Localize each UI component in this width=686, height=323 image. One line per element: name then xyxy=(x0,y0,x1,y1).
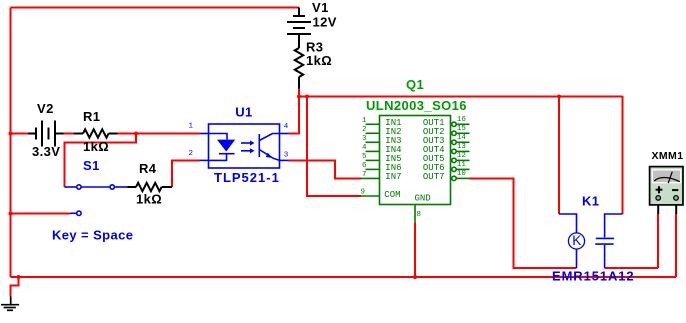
svg-text:12: 12 xyxy=(457,152,466,160)
wire top xyxy=(11,7,300,9)
wire junction to S1 xyxy=(65,134,137,188)
node coil tap xyxy=(557,95,561,99)
svg-text:4: 4 xyxy=(362,144,367,152)
svg-text:3.3V: 3.3V xyxy=(32,144,60,159)
svg-text:3: 3 xyxy=(284,152,289,160)
node rail V2 xyxy=(9,132,13,136)
svg-text:1: 1 xyxy=(362,117,367,125)
svg-text:2: 2 xyxy=(362,126,367,134)
svg-text:14: 14 xyxy=(457,134,467,142)
wire +12V bus xyxy=(299,96,623,98)
node rail ground xyxy=(17,275,21,279)
svg-text:7: 7 xyxy=(362,171,367,179)
relay K1 coil circle xyxy=(568,233,584,249)
svg-text:16: 16 xyxy=(457,116,467,124)
wire U1 pin3 to IN7 xyxy=(289,160,362,178)
svg-text:ULN2003_SO16: ULN2003_SO16 xyxy=(366,98,467,113)
resistor R1 xyxy=(74,129,118,137)
wire coil feed xyxy=(558,96,560,214)
svg-text:2: 2 xyxy=(189,150,194,158)
relay K1 coil lead bottom and contact xyxy=(577,214,623,268)
wire ground rail xyxy=(11,276,677,278)
svg-text:K1: K1 xyxy=(582,194,599,209)
svg-text:15: 15 xyxy=(457,125,467,133)
wire left rail xyxy=(10,8,12,278)
svg-text:OUT7: OUT7 xyxy=(423,172,445,182)
node R3 bottom xyxy=(297,95,301,99)
IC Q1 ULN2003_SO16 xyxy=(361,116,470,224)
battery V1 xyxy=(287,8,311,49)
svg-text:U1: U1 xyxy=(235,105,252,120)
relay K1 coil lead top xyxy=(559,214,577,233)
svg-text:S1: S1 xyxy=(83,158,100,173)
resistor R4 xyxy=(128,183,173,191)
svg-text:1kΩ: 1kΩ xyxy=(83,139,109,154)
node rail S1 xyxy=(9,212,13,216)
wire COM feed xyxy=(307,96,361,196)
wire R1 to U1 pin1 xyxy=(118,133,200,135)
wire ground branch xyxy=(11,277,19,296)
svg-text:8: 8 xyxy=(417,211,422,219)
svg-text:EMR151A12: EMR151A12 xyxy=(552,269,635,284)
svg-text:Q1: Q1 xyxy=(406,77,424,92)
svg-text:R1: R1 xyxy=(83,109,100,124)
wire relay contact to XMM1 plus xyxy=(605,267,659,269)
battery V2 xyxy=(28,121,64,147)
svg-text:R4: R4 xyxy=(139,161,157,176)
wire U1 pin4 feed xyxy=(289,89,300,134)
wire OUT7 to relay coil xyxy=(470,178,577,268)
opto-coupler U1 xyxy=(200,124,289,168)
svg-text:Key = Space: Key = Space xyxy=(52,228,133,243)
svg-text:V2: V2 xyxy=(37,101,54,116)
wire R4 to U1 pin2 xyxy=(172,160,200,187)
svg-text:1kΩ: 1kΩ xyxy=(136,192,162,207)
wire S1 lower throw xyxy=(11,213,71,215)
svg-text:COM: COM xyxy=(384,190,400,200)
svg-text:9: 9 xyxy=(361,189,366,197)
svg-text:IN7: IN7 xyxy=(385,172,401,182)
node rail ULN gnd xyxy=(413,275,417,279)
svg-text:4: 4 xyxy=(284,123,289,131)
resistor R3 xyxy=(295,48,303,89)
svg-text:1: 1 xyxy=(189,123,194,131)
svg-text:10: 10 xyxy=(457,170,467,178)
svg-text:XMM1: XMM1 xyxy=(652,150,684,162)
svg-text:12V: 12V xyxy=(313,15,337,30)
svg-text:K: K xyxy=(572,233,581,248)
svg-text:GND: GND xyxy=(415,193,431,203)
svg-text:1kΩ: 1kΩ xyxy=(306,53,332,68)
svg-text:TLP521-1: TLP521-1 xyxy=(214,170,280,185)
node COM tap xyxy=(305,95,309,99)
wire V2 branch xyxy=(11,133,29,135)
wire XMM1 minus down xyxy=(675,214,677,277)
svg-text:V1: V1 xyxy=(312,0,329,15)
svg-text:11: 11 xyxy=(457,161,467,169)
svg-text:5: 5 xyxy=(362,153,367,161)
node R1 out xyxy=(134,132,138,136)
wire V2 to R1 xyxy=(64,133,74,135)
wire ULN GND down xyxy=(414,223,416,277)
svg-text:3: 3 xyxy=(362,135,367,143)
switch S1 xyxy=(65,185,128,216)
svg-text:13: 13 xyxy=(457,143,467,151)
svg-text:6: 6 xyxy=(362,162,367,170)
wire contact feed xyxy=(622,96,624,214)
ground xyxy=(1,296,19,310)
